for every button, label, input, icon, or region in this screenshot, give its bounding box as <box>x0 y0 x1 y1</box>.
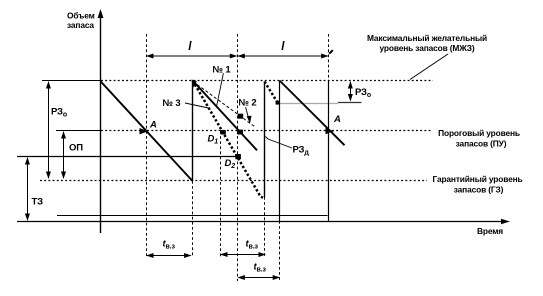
svg-text:Максимальный желательный: Максимальный желательный <box>367 33 487 43</box>
svg-text:Время: Время <box>477 226 503 236</box>
svg-text:уровень запасов (МЖЗ): уровень запасов (МЖЗ) <box>379 43 474 53</box>
svg-text:запасов (ГЗ): запасов (ГЗ) <box>454 185 504 195</box>
svg-text:ОП: ОП <box>69 143 83 154</box>
svg-text:ТЗ: ТЗ <box>32 197 44 208</box>
svg-text:№ 2: № 2 <box>239 98 257 109</box>
svg-text:№ 1: № 1 <box>213 65 232 76</box>
svg-text:Гарантийный уровень: Гарантийный уровень <box>432 174 522 184</box>
svg-text:запасов (ПУ): запасов (ПУ) <box>456 139 507 149</box>
svg-text:№ 3: № 3 <box>163 98 181 109</box>
svg-text:запаса: запаса <box>67 20 94 30</box>
svg-text:A: A <box>333 114 341 125</box>
svg-text:Объем: Объем <box>67 11 95 21</box>
svg-text:A: A <box>149 120 157 131</box>
svg-text:Пороговый уровень: Пороговый уровень <box>438 128 520 138</box>
